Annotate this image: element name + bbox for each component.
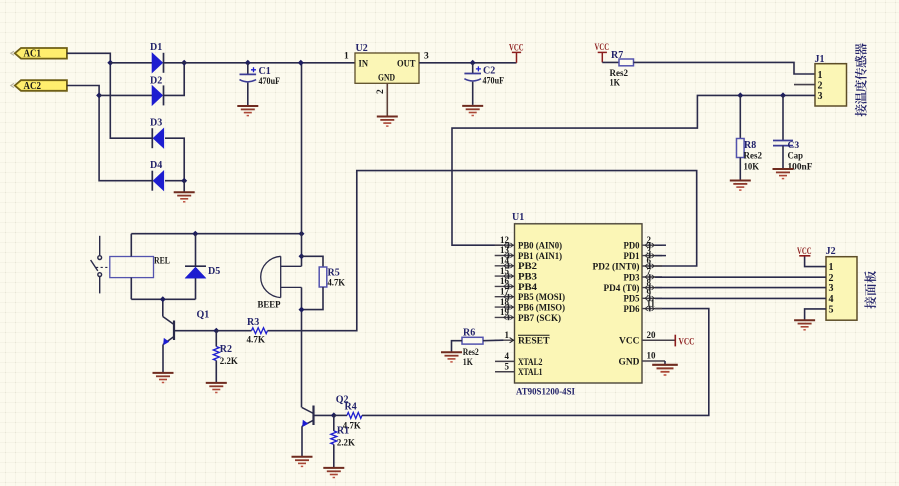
ground of C2: [462, 106, 483, 116]
svg-text:REL: REL: [154, 256, 170, 267]
svg-text:VCC: VCC: [595, 43, 610, 53]
wire to R2: [215, 331, 217, 347]
svg-text:5: 5: [829, 305, 834, 316]
svg-text:GND: GND: [619, 357, 640, 367]
svg-text:7: 7: [647, 267, 652, 277]
junction R8 tap: [737, 92, 743, 98]
diode D5: [185, 266, 206, 278]
svg-text:XTAL2: XTAL2: [518, 358, 543, 368]
wire Q2 emitter: [301, 426, 303, 456]
svg-text:R2: R2: [220, 344, 232, 355]
wire PD5 to J2 pin4: [655, 297, 826, 299]
svg-text:J1: J1: [815, 54, 825, 65]
svg-text:470uF: 470uF: [259, 76, 281, 87]
svg-text:BEEP: BEEP: [258, 299, 281, 310]
pin 4 XTAL2 of U1: [495, 351, 543, 368]
wire R3 to INT0 riser: [268, 171, 697, 331]
wire R8 to ground: [739, 158, 741, 181]
wire U2 OUT to VCC: [419, 62, 517, 64]
svg-text:2: 2: [829, 273, 834, 284]
junction beep/R5 bottom: [299, 307, 305, 313]
junction rail to VCC riser: [299, 231, 305, 237]
ground of U1: [652, 365, 678, 375]
wire C2 to ground: [472, 82, 474, 105]
wire R1 to ground: [333, 444, 335, 467]
switch contact: [91, 236, 110, 294]
svg-text:D4: D4: [150, 160, 162, 171]
wire Q1 collector: [162, 299, 164, 316]
pin 16 PB4 of U1: [495, 276, 538, 293]
svg-text:PD6: PD6: [624, 305, 640, 315]
wire D3 to D4 node: [165, 138, 184, 181]
svg-text:1: 1: [505, 330, 510, 340]
pin 7 PD3 of U1: [624, 267, 663, 284]
diode D3: [152, 128, 164, 148]
svg-text:PD1: PD1: [624, 252, 640, 262]
resistor R1: [331, 431, 337, 445]
resistor R5: [319, 267, 327, 287]
J1 caption char 温: [855, 92, 867, 104]
wire base to R3: [216, 330, 251, 332]
svg-text:3: 3: [829, 283, 834, 294]
J1 caption char 传: [855, 68, 867, 80]
wire node to bridge ground: [183, 181, 185, 192]
svg-text:PB6 (MISO): PB6 (MISO): [518, 303, 565, 314]
wire D5 bottom: [195, 278, 197, 299]
svg-text:15: 15: [500, 266, 510, 276]
pin 11 PD6 of U1: [624, 298, 663, 315]
svg-text:VCC: VCC: [619, 337, 640, 347]
power VCC at J2: [799, 255, 810, 257]
wire riser to beep node: [301, 234, 303, 267]
pin 20 VCC of U1: [619, 330, 675, 347]
svg-text:AC1: AC1: [24, 48, 42, 60]
resistor R4: [347, 412, 362, 418]
junction D4/ground: [181, 178, 187, 184]
wire R6 to ground: [452, 341, 463, 352]
pin 12 PB0 (AIN0) of U1: [495, 235, 562, 252]
wire R2 to ground: [215, 361, 217, 383]
junction beep/R5 top: [299, 253, 305, 259]
svg-text:PD4 (T0): PD4 (T0): [604, 283, 640, 294]
J2 caption char 面: [864, 284, 876, 296]
capacitor C2: [464, 66, 481, 81]
ground of C1: [237, 106, 258, 116]
diode D4: [152, 171, 164, 191]
wire U1 GND to ground: [664, 361, 666, 365]
resistor R6: [462, 337, 483, 344]
J2 caption char 接: [864, 297, 876, 309]
wire J1 pin3 net: [452, 95, 815, 245]
svg-text:19: 19: [500, 307, 510, 317]
port AC2: [15, 80, 67, 91]
svg-text:Cap: Cap: [788, 151, 804, 162]
pin 5 XTAL1 of U1: [495, 361, 543, 378]
J1 caption char 度: [855, 80, 867, 92]
svg-text:PD3: PD3: [624, 273, 640, 283]
wire Q1 base: [174, 330, 216, 332]
wire J2 pin1 to VCC: [805, 256, 826, 266]
svg-text:3: 3: [818, 91, 823, 102]
pin 9 PD5 of U1: [624, 288, 663, 305]
wire R6 to RESET: [483, 339, 503, 342]
pin 19 PB7 (SCK) of U1: [495, 307, 561, 324]
svg-text:10: 10: [647, 351, 657, 361]
svg-text:VCC: VCC: [679, 337, 695, 347]
svg-text:D3: D3: [150, 118, 162, 129]
port AC2 tip mark: [11, 83, 14, 87]
svg-text:R6: R6: [463, 327, 475, 338]
svg-text:4.7K: 4.7K: [247, 334, 266, 345]
wire node to D2 anode: [99, 94, 152, 96]
wire relay top rail: [131, 233, 301, 235]
svg-text:3: 3: [647, 245, 652, 255]
svg-text:20: 20: [647, 330, 657, 340]
svg-text:1K: 1K: [463, 357, 473, 368]
wire rectified rail to U2 IN: [164, 62, 356, 64]
transistor Q2: [302, 406, 314, 428]
svg-text:2: 2: [376, 89, 386, 94]
capacitor C3: [773, 141, 793, 146]
ground of J2: [794, 320, 815, 330]
port AC1 tip mark: [11, 51, 14, 55]
ground of Q1: [153, 373, 174, 383]
ground of bridge: [174, 192, 195, 202]
J2 caption char 板: [864, 271, 876, 283]
svg-text:R8: R8: [744, 140, 756, 151]
svg-text:100nF: 100nF: [788, 162, 813, 173]
svg-text:VCC: VCC: [797, 247, 812, 257]
junction Q1 collector tap: [160, 296, 166, 302]
svg-text:U2: U2: [356, 43, 368, 54]
svg-text:14: 14: [500, 256, 510, 266]
svg-text:8: 8: [647, 277, 652, 287]
resistor R7: [619, 59, 634, 66]
svg-text:6: 6: [647, 256, 652, 266]
ground of R6: [441, 352, 462, 362]
pin 6 PD2 (INT0) of U1: [593, 256, 663, 273]
svg-text:2: 2: [647, 235, 652, 245]
svg-text:2.2K: 2.2K: [337, 437, 355, 448]
svg-text:1K: 1K: [610, 78, 621, 89]
junction AC2/D2 node: [96, 92, 102, 98]
wire REL bottom: [130, 278, 132, 300]
pin 8 PD4 (T0) of U1: [604, 277, 663, 294]
svg-text:J2: J2: [826, 246, 836, 257]
svg-text:12: 12: [500, 235, 510, 245]
wire J2 pin5 to ground: [805, 309, 826, 320]
svg-text:4.7K: 4.7K: [328, 278, 346, 289]
J1 caption char 感: [855, 56, 866, 68]
svg-text:R5: R5: [328, 267, 340, 278]
svg-text:PB4: PB4: [518, 283, 537, 293]
svg-text:5: 5: [505, 361, 510, 371]
wire D4 anode to node: [165, 180, 184, 182]
svg-text:GND: GND: [378, 72, 395, 83]
resistor R3: [252, 328, 268, 334]
wire J1 pin2 stub: [794, 84, 815, 86]
junction C3 tap: [780, 92, 786, 98]
resistor R2: [213, 347, 219, 361]
svg-text:R7: R7: [611, 50, 623, 61]
pin 14 PB2 of U1: [495, 256, 538, 273]
wire rail to C1: [247, 63, 249, 75]
wire beep bottom down: [301, 287, 303, 407]
pin 1 RESET of U1: [495, 330, 551, 347]
wire PD3 to J2 pin2: [655, 276, 826, 278]
svg-text:3: 3: [424, 52, 429, 62]
svg-text:VCC: VCC: [509, 44, 524, 54]
wire Q2 base: [314, 414, 334, 416]
wire R7 to J1 pin1: [634, 62, 816, 74]
junction base/R1: [331, 412, 337, 418]
J1 caption char 接: [855, 104, 867, 116]
svg-text:2: 2: [818, 80, 823, 91]
svg-text:4: 4: [829, 294, 834, 305]
pin 18 PB6 (MISO) of U1: [495, 297, 565, 314]
svg-text:AT90S1200-4SI: AT90S1200-4SI: [516, 387, 575, 398]
power VCC at U1 pin20: [674, 335, 676, 347]
resistor R8: [737, 139, 745, 158]
diode D1: [152, 53, 164, 73]
pin 17 PB5 (MOSI) of U1: [495, 286, 565, 303]
wire to R8: [739, 95, 741, 138]
power VCC at R7: [598, 52, 607, 62]
svg-text:Q1: Q1: [197, 310, 210, 321]
svg-text:PD5: PD5: [624, 295, 640, 305]
svg-text:PB0 (AIN0): PB0 (AIN0): [518, 241, 562, 252]
svg-text:R1: R1: [337, 426, 349, 437]
svg-text:17: 17: [500, 286, 510, 296]
wire D2 cathode up to rail: [164, 63, 185, 96]
pin 15 PB3 of U1: [495, 266, 538, 283]
svg-text:9: 9: [647, 288, 652, 298]
svg-text:470uF: 470uF: [483, 76, 505, 87]
svg-text:R3: R3: [247, 317, 259, 328]
svg-text:PD2 (INT0): PD2 (INT0): [593, 261, 640, 272]
svg-text:1: 1: [829, 262, 834, 273]
wire relay bottom rail: [131, 298, 195, 300]
svg-text:XTAL1: XTAL1: [518, 368, 543, 378]
svg-text:D1: D1: [150, 42, 162, 53]
svg-text:OUT: OUT: [397, 58, 416, 69]
wire C1 to ground: [247, 83, 249, 106]
J1 caption char 器: [855, 43, 867, 55]
buzzer BEEP: [261, 256, 302, 297]
power VCC after U2: [512, 52, 521, 62]
ground of R2: [206, 383, 227, 393]
pin 10 GND of U1: [619, 351, 666, 368]
wire PD4 to J2 pin3: [655, 287, 826, 289]
pin 2 PD0 of U1: [624, 235, 667, 252]
ground of C3: [773, 169, 794, 179]
pin 13 PB1 (AIN1) of U1: [495, 245, 562, 262]
junction rail/C? at rail: [298, 60, 304, 66]
svg-text:18: 18: [500, 297, 510, 307]
junction D5 top: [192, 231, 198, 237]
junction AC1/D1 node: [107, 60, 113, 66]
wire base to R4: [334, 414, 347, 416]
svg-text:4: 4: [505, 351, 510, 361]
ground of Q2: [292, 457, 313, 467]
wire to R1: [333, 415, 335, 431]
svg-text:1: 1: [344, 52, 349, 62]
wire U2 GND pin: [386, 83, 388, 116]
connector J1 body: [815, 64, 847, 106]
svg-text:Res2: Res2: [744, 151, 763, 162]
wire AC1 to bridge: [67, 53, 152, 138]
svg-text:PB3: PB3: [518, 273, 537, 283]
junction rail/C1: [245, 60, 251, 66]
svg-text:PB2: PB2: [518, 262, 537, 272]
port AC1: [15, 48, 67, 59]
microcontroller U1 body: [515, 224, 643, 383]
svg-text:U1: U1: [512, 212, 524, 223]
regulator U2 body: [355, 53, 419, 83]
wire R4 to PD6: [362, 309, 709, 416]
pin 3 PD1 of U1: [624, 245, 667, 262]
transistor Q1: [163, 317, 174, 346]
svg-text:13: 13: [500, 245, 510, 255]
svg-text:RESET: RESET: [518, 337, 550, 347]
junction D1/D2 rail: [181, 60, 187, 66]
svg-text:PB7 (SCK): PB7 (SCK): [518, 313, 561, 324]
wire VCC to C2: [472, 63, 474, 74]
svg-text:10K: 10K: [744, 162, 760, 173]
capacitor C1: [240, 67, 257, 82]
svg-text:D5: D5: [208, 266, 220, 277]
ground of R1: [323, 468, 344, 478]
wire R5 bottom: [302, 287, 324, 310]
svg-text:C3: C3: [788, 140, 800, 151]
wire REL top: [130, 234, 132, 257]
ground of R8: [730, 181, 751, 191]
svg-text:IN: IN: [359, 58, 369, 69]
svg-text:PD0: PD0: [624, 242, 640, 252]
svg-text:R4: R4: [345, 402, 357, 413]
wire Q1 emitter: [162, 345, 164, 373]
svg-text:11: 11: [647, 298, 656, 308]
svg-text:PB1 (AIN1): PB1 (AIN1): [518, 251, 562, 262]
wire D5 top: [195, 234, 197, 266]
wire AC2 to bridge: [67, 86, 152, 181]
wire C3 to ground: [782, 146, 784, 169]
svg-text:PB5 (MOSI): PB5 (MOSI): [518, 292, 565, 303]
wire beep top to R5: [302, 256, 324, 267]
ground of U2: [377, 117, 398, 127]
junction base/R2: [213, 328, 219, 334]
wire VCC to R7: [602, 61, 619, 63]
relay REL body: [110, 257, 154, 278]
junction OUT/C2: [470, 60, 476, 66]
svg-text:16: 16: [500, 276, 510, 286]
svg-text:2.2K: 2.2K: [220, 356, 238, 367]
wire node to D1 anode: [110, 62, 152, 64]
diode D2: [152, 85, 164, 105]
wire to C3: [782, 95, 784, 140]
svg-text:AC2: AC2: [24, 80, 42, 92]
wire VCC riser: [301, 63, 303, 234]
connector J2 body: [826, 257, 857, 321]
